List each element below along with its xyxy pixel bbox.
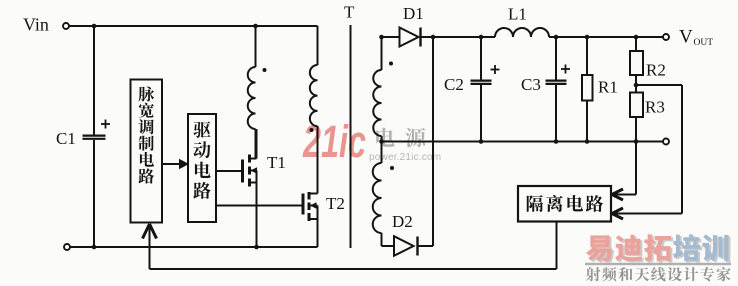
junction secondary top bbox=[379, 35, 384, 40]
svg-text:OUT: OUT bbox=[694, 38, 714, 48]
wire PWM to drive arrow bbox=[162, 163, 184, 165]
wire L1 to Vout bbox=[549, 36, 663, 38]
junction R1 bottom bbox=[585, 139, 590, 144]
block drive 驱动电路 bbox=[188, 114, 216, 222]
wire rectified node to L1 bbox=[433, 36, 495, 38]
junction T1 source bbox=[254, 245, 259, 250]
resistor R1 bbox=[586, 37, 588, 75]
svg-text:T1: T1 bbox=[267, 153, 286, 172]
junction C1 bottom bbox=[92, 245, 97, 250]
transformer core T bbox=[350, 25, 352, 248]
watermark 易迪拓 red bbox=[586, 235, 612, 261]
wire C1 upper bbox=[93, 26, 95, 135]
terminal Vin bbox=[63, 23, 69, 29]
svg-text:L1: L1 bbox=[508, 5, 527, 24]
terminal Vout return bbox=[663, 139, 669, 145]
transformer primary left winding bbox=[255, 26, 257, 67]
phase dot secondary upper bbox=[389, 62, 393, 66]
wire output ground rail bbox=[382, 141, 664, 143]
capacitor C1 bbox=[83, 135, 106, 137]
svg-text:D1: D1 bbox=[403, 4, 424, 23]
wire bottom primary rail bbox=[70, 246, 318, 248]
svg-text:R1: R1 bbox=[598, 78, 618, 97]
junction divider tap bbox=[634, 83, 639, 88]
svg-text:C2: C2 bbox=[444, 75, 464, 94]
junction C2 top bbox=[479, 35, 484, 40]
svg-text:C1: C1 bbox=[56, 129, 76, 148]
terminal Vout bbox=[663, 34, 669, 40]
svg-text:Vin: Vin bbox=[23, 15, 49, 35]
phase dot primary right bbox=[310, 128, 314, 132]
transistor T2 bbox=[216, 205, 302, 207]
junction C1 top bbox=[92, 24, 97, 29]
wire feedback bottom bbox=[150, 268, 557, 270]
diode D2 bbox=[394, 236, 414, 256]
wire secondary top to D1 bbox=[382, 36, 400, 38]
transformer primary right winding bbox=[317, 26, 319, 65]
resistor R3 bbox=[630, 93, 643, 118]
phase dot secondary lower bbox=[390, 166, 394, 170]
transformer secondary upper winding bbox=[381, 37, 383, 70]
wire feedback vertical with arrow into PWM bbox=[149, 226, 151, 269]
svg-text:V: V bbox=[679, 27, 693, 48]
junction C3 bottom bbox=[554, 139, 559, 144]
wire top primary rail bbox=[69, 25, 318, 27]
wire secondary bottom to D2 bbox=[382, 245, 395, 247]
watermark 射频和天线设计专家 bbox=[586, 267, 601, 281]
wire divider tap to isolation bbox=[636, 84, 682, 86]
svg-text:T2: T2 bbox=[326, 194, 345, 213]
watermark 易迪拓培训 shadow bbox=[588, 237, 614, 263]
junction C3 top bbox=[554, 35, 559, 40]
svg-text:R3: R3 bbox=[645, 98, 665, 117]
wire D2 cathode riser bbox=[432, 37, 434, 246]
watermark 电源 grey bbox=[376, 128, 394, 147]
inductor L1 bbox=[495, 28, 549, 37]
junction primary left top bbox=[253, 24, 258, 29]
watermark underline bbox=[585, 263, 731, 265]
resistor R2 bbox=[635, 37, 637, 51]
junction R3 bottom bbox=[634, 139, 639, 144]
diode D1 bbox=[400, 28, 419, 47]
wire C1 lower bbox=[93, 140, 95, 247]
watermark 培训 blue bbox=[673, 234, 700, 261]
transformer secondary lower winding bbox=[381, 142, 383, 164]
svg-text:power.21ic.com: power.21ic.com bbox=[369, 152, 441, 163]
svg-text:C3: C3 bbox=[521, 75, 541, 94]
block PWM 脉宽调制电路 bbox=[131, 80, 163, 223]
capacitor C2 bbox=[480, 37, 482, 80]
junction center tap bbox=[379, 139, 384, 144]
svg-text:21ic: 21ic bbox=[302, 118, 366, 167]
block isolation 隔离电路 bbox=[518, 186, 611, 222]
svg-text:T: T bbox=[344, 3, 355, 22]
svg-text:D2: D2 bbox=[392, 212, 413, 231]
junction R1 top bbox=[585, 35, 590, 40]
phase dot primary left bbox=[263, 68, 267, 72]
wire ground sense to isolation bbox=[635, 142, 637, 195]
junction R2 top bbox=[634, 35, 639, 40]
terminal Vin return bbox=[64, 244, 70, 250]
svg-text:R2: R2 bbox=[646, 61, 666, 80]
transistor T1 bbox=[216, 170, 241, 172]
capacitor C3 bbox=[555, 37, 557, 80]
junction rectifier node bbox=[431, 35, 436, 40]
junction C2 bottom bbox=[479, 139, 484, 144]
